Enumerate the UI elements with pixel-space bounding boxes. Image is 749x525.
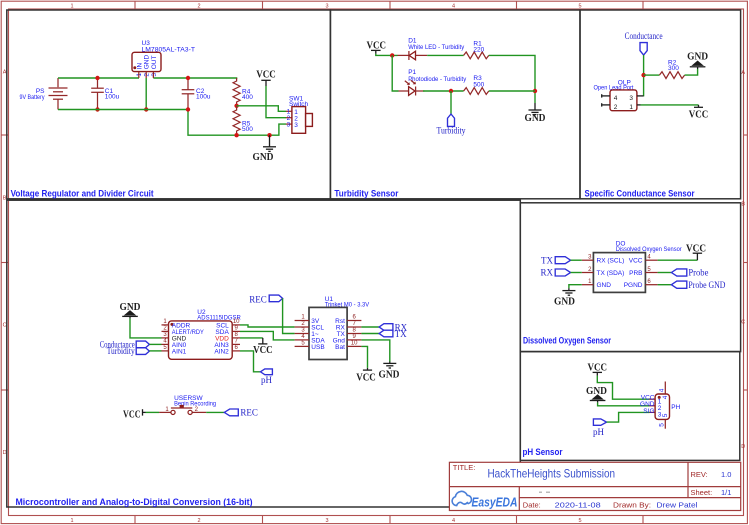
wire REC to U1 pin3	[283, 298, 295, 333]
svg-text:Specific Conductance Sensor: Specific Conductance Sensor	[585, 188, 695, 198]
battery PS	[20, 78, 68, 110]
svg-text:3: 3	[658, 412, 662, 419]
net flag Probe GND	[671, 280, 725, 290]
svg-text:VCC: VCC	[629, 258, 643, 265]
svg-text:pH Sensor: pH Sensor	[523, 447, 563, 457]
svg-text:D: D	[741, 444, 745, 450]
net flag Turbidity	[437, 91, 466, 136]
resistor R5	[233, 106, 253, 135]
svg-text:Microcontroller and Analog-to-: Microcontroller and Analog-to-Digital Co…	[16, 497, 253, 507]
wire VCC to D1	[376, 54, 398, 56]
component U2 ADS1115	[162, 309, 242, 359]
svg-text:PGND: PGND	[624, 282, 643, 289]
svg-text:10: 10	[351, 340, 358, 346]
svg-text:4: 4	[662, 395, 669, 399]
wire VCC to switch pin2	[266, 86, 286, 118]
svg-text:REC: REC	[249, 294, 267, 304]
net flag TX	[379, 329, 407, 339]
svg-text:Turbidity: Turbidity	[437, 126, 466, 136]
svg-text:3: 3	[151, 73, 158, 77]
svg-text:GND: GND	[597, 282, 612, 289]
svg-text:pH: pH	[261, 375, 273, 385]
wire top rail left	[58, 77, 139, 79]
wire R3 to right rail	[489, 90, 535, 92]
section box: dissolved oxygen sensor	[520, 203, 740, 352]
junction	[95, 107, 99, 111]
svg-text:TX: TX	[541, 255, 553, 265]
svg-text:5: 5	[578, 518, 581, 524]
svg-text:VCC: VCC	[123, 409, 141, 420]
junction	[144, 107, 148, 111]
svg-text:REV:: REV:	[691, 470, 708, 479]
junction	[267, 133, 271, 137]
svg-text:3: 3	[629, 95, 633, 102]
svg-text:GND: GND	[144, 55, 151, 70]
svg-text:TITLE:: TITLE:	[453, 463, 476, 472]
net flag REC (bottom)	[224, 408, 258, 418]
title block	[449, 462, 740, 510]
svg-text:5: 5	[578, 4, 581, 10]
ground (U2)	[120, 302, 141, 319]
svg-text:pH: pH	[593, 427, 605, 437]
svg-text:TX: TX	[395, 329, 407, 339]
wire GND to U2 pin3	[130, 319, 162, 338]
section box: turbidity sensor	[330, 10, 580, 199]
svg-text:OUT: OUT	[151, 56, 158, 70]
svg-text:2: 2	[197, 518, 200, 524]
wire R2 to GND	[685, 69, 698, 75]
net flag pH (micro)	[260, 369, 272, 385]
wire DO gnd	[569, 285, 582, 289]
resistor R3	[464, 75, 489, 95]
svg-text:AIN1: AIN1	[172, 348, 187, 355]
pushbutton USERSW	[159, 395, 216, 415]
svg-text:5: 5	[662, 413, 669, 417]
svg-text:3: 3	[325, 4, 328, 10]
svg-text:4: 4	[452, 4, 455, 10]
resistor R1	[464, 41, 489, 59]
EasyEDA logo	[452, 491, 517, 509]
svg-text:1: 1	[629, 104, 633, 111]
ground	[525, 103, 546, 124]
svg-text:D: D	[3, 450, 7, 456]
svg-text:VCC: VCC	[689, 110, 709, 121]
svg-text:GND: GND	[379, 369, 400, 380]
section box: pH sensor	[520, 352, 740, 461]
svg-text:RX: RX	[540, 268, 553, 278]
svg-text:Drawn By:: Drawn By:	[613, 500, 651, 509]
regulator U3	[132, 40, 195, 78]
wire DO prb	[658, 272, 672, 274]
svg-text:9V Battery: 9V Battery	[20, 94, 46, 101]
wire button to REC	[206, 411, 224, 413]
junction	[641, 73, 645, 77]
svg-text:PH: PH	[671, 404, 680, 411]
svg-text:Photodiode - Turbidity: Photodiode - Turbidity	[408, 76, 467, 83]
svg-text:White LED - Turbidity: White LED - Turbidity	[408, 44, 465, 51]
component OLP open lead port	[594, 80, 644, 111]
junction	[186, 76, 190, 80]
wire DO pgnd	[658, 284, 672, 286]
power VCC (inverted)	[689, 105, 709, 121]
junction	[533, 89, 537, 93]
wire VDD to VCC	[240, 337, 263, 339]
svg-text:TX (SDA): TX (SDA)	[597, 270, 625, 277]
junction	[234, 104, 238, 108]
wire SCL U2 to U1	[240, 325, 295, 327]
net flag Turbidity	[107, 346, 162, 356]
net flag Conductance	[625, 31, 663, 55]
svg-text:3: 3	[325, 518, 328, 524]
wire U1 Bat	[361, 346, 367, 368]
frame row letters right	[741, 70, 745, 450]
section box: microcontroller	[7, 200, 521, 507]
wire R4 junction to switch pin1	[237, 106, 286, 112]
wire GND to PH pin2	[598, 403, 650, 406]
svg-text:1: 1	[70, 518, 73, 524]
wire VCC to button	[146, 411, 160, 413]
wire R1 to right rail	[489, 55, 535, 103]
wire bottom rail	[58, 110, 286, 136]
junction	[390, 53, 394, 57]
svg-text:2: 2	[197, 4, 200, 10]
wire DO vcc	[658, 259, 698, 261]
svg-text:AIN2: AIN2	[214, 348, 229, 355]
svg-text:SIG: SIG	[643, 408, 654, 415]
svg-text:PRB: PRB	[629, 270, 642, 277]
svg-text:3: 3	[287, 121, 291, 128]
svg-text:A: A	[741, 70, 745, 76]
power VCC (inverted)	[356, 368, 376, 383]
wire pH to PH pin3	[607, 412, 650, 422]
resistor R4	[233, 78, 253, 106]
svg-text:1: 1	[70, 4, 73, 10]
svg-text:Bat: Bat	[335, 344, 345, 351]
svg-text:RX (SCL): RX (SCL)	[597, 258, 625, 265]
svg-text:REC: REC	[240, 408, 258, 418]
junction	[186, 107, 190, 111]
svg-text:GND: GND	[253, 152, 274, 163]
svg-text:Dissolved Oxygen Sensor: Dissolved Oxygen Sensor	[523, 336, 611, 346]
svg-text:10: 10	[233, 319, 240, 325]
power VCC (inverted)	[253, 338, 273, 356]
svg-text:2: 2	[144, 73, 151, 77]
svg-text:2020-11-08: 2020-11-08	[555, 500, 601, 509]
svg-text:Probe: Probe	[688, 268, 708, 278]
svg-text:1: 1	[136, 73, 143, 77]
wire D1 to R1	[427, 54, 463, 56]
wire AIN2 to pH	[240, 351, 260, 372]
svg-text:400: 400	[242, 94, 253, 101]
svg-text:GND: GND	[687, 51, 708, 62]
wire VCC to PH pin1	[597, 376, 649, 399]
ground	[379, 362, 400, 381]
svg-text:100u: 100u	[105, 94, 120, 101]
svg-text:B: B	[741, 202, 745, 208]
power VCC	[256, 70, 276, 86]
wire Conductance down	[643, 55, 645, 96]
svg-text:500: 500	[242, 126, 253, 133]
svg-text:Voltage Regulator and Divider: Voltage Regulator and Divider Circuit	[11, 188, 154, 198]
wire U1 TX	[361, 333, 379, 335]
wire VCC junction down to P1	[392, 55, 398, 91]
component U1 Trinket M0	[295, 296, 370, 360]
net flag pH	[593, 419, 607, 437]
svg-text:EasyEDA: EasyEDA	[472, 495, 518, 509]
net flag REC (top)	[249, 294, 282, 304]
svg-text:3: 3	[294, 122, 298, 129]
svg-text:5: 5	[658, 423, 665, 427]
svg-text:1/1: 1/1	[721, 488, 731, 497]
component PH	[640, 382, 681, 429]
svg-text:VCC: VCC	[253, 345, 273, 356]
section box: voltage regulator	[7, 10, 331, 199]
junction	[234, 133, 238, 137]
svg-text:1.0: 1.0	[721, 470, 731, 479]
resistor R2	[659, 59, 684, 78]
svg-text:HackTheHeights Submission: HackTheHeights Submission	[488, 467, 616, 481]
svg-text:500: 500	[473, 81, 484, 88]
diode D1	[398, 37, 465, 60]
capacitor C2	[182, 78, 211, 110]
svg-text:GND: GND	[525, 113, 546, 124]
svg-text:2: 2	[614, 104, 618, 111]
wire SDA U2 to U1	[240, 331, 295, 340]
wire junction to R2	[644, 74, 660, 76]
net flag Probe	[671, 268, 708, 278]
svg-text:VCC: VCC	[686, 244, 706, 255]
photodiode P1	[399, 69, 467, 95]
section box: specific conductance sensor	[580, 10, 741, 199]
net flag RX	[379, 322, 408, 332]
wire OLP pin1 to VCC	[641, 104, 699, 106]
svg-text:300: 300	[668, 65, 679, 72]
svg-text:100u: 100u	[196, 94, 211, 101]
ground	[253, 135, 277, 163]
junction	[95, 76, 99, 80]
svg-text:IN: IN	[136, 62, 143, 69]
svg-text:Sheet:: Sheet:	[691, 488, 713, 497]
svg-text:VCC: VCC	[356, 372, 376, 383]
frame row letters left	[3, 70, 7, 457]
svg-text:Turbidity Sensor: Turbidity Sensor	[334, 188, 398, 198]
ground	[554, 288, 575, 308]
svg-text:Conductance: Conductance	[625, 31, 663, 41]
svg-text:GND: GND	[554, 297, 575, 308]
junction	[449, 89, 453, 93]
switch SW1	[286, 96, 312, 134]
ground (flipped)	[586, 386, 607, 403]
wire top rail right	[153, 77, 237, 79]
svg-text:4: 4	[658, 388, 665, 392]
power VCC	[686, 244, 706, 261]
ground (flipped)	[687, 51, 708, 69]
power VCC	[588, 363, 608, 376]
power VCC (sideways)	[123, 409, 145, 420]
wire U1 Gnd	[361, 340, 389, 362]
svg-text:4: 4	[614, 95, 618, 102]
capacitor C1	[91, 78, 119, 110]
wire P1 to R3	[423, 90, 464, 92]
svg-text:USB: USB	[311, 344, 324, 351]
svg-text:Date:: Date:	[523, 500, 541, 509]
svg-text:Probe GND: Probe GND	[688, 280, 725, 290]
svg-text:Drew Patel: Drew Patel	[657, 500, 698, 509]
net flag Conductance	[100, 339, 162, 349]
frame column numbers bottom	[70, 518, 581, 524]
net flag TX	[541, 255, 582, 265]
power VCC	[366, 41, 386, 54]
wire U3 gnd pin down	[145, 78, 147, 110]
svg-text:C: C	[3, 323, 7, 329]
component DO dissolved oxygen sensor	[582, 241, 683, 293]
svg-text:220: 220	[473, 46, 484, 53]
svg-text:C: C	[741, 320, 745, 326]
svg-text:4: 4	[452, 518, 455, 524]
wire U1 RX	[361, 326, 379, 328]
net flag RX	[540, 268, 581, 278]
svg-text:Turbidity: Turbidity	[107, 346, 135, 356]
svg-text:VCC: VCC	[256, 70, 276, 81]
frame column numbers top	[70, 4, 581, 10]
